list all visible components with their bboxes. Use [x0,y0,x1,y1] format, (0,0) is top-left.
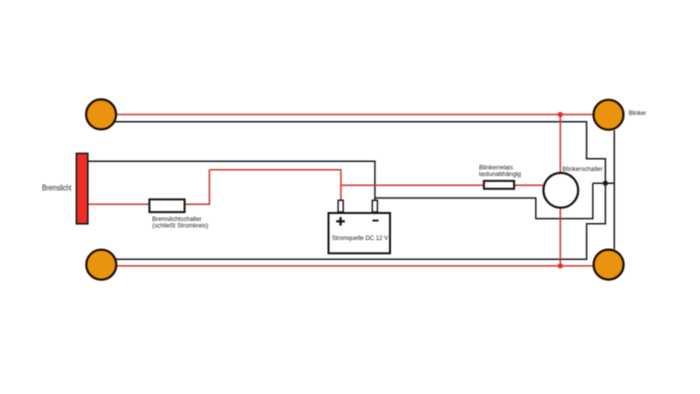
lamp bottom-right [594,250,624,280]
battery terminal plus [338,200,343,212]
node red junction dot top [558,112,563,117]
battery plus sign [336,220,345,222]
wire red bottom blinker line (horizontal y=265.9) [115,265,593,267]
svg-text:Bremslicht: Bremslicht [42,183,72,192]
wire black step horizontal y=158.7 [586,158,606,160]
wire black junction row horizontal y=183.2 [593,182,615,184]
relay box Blinkerrelais [484,181,514,189]
wire black bottom return (horizontal y=259.3) [113,258,587,260]
wire black step vertical x=586.6 lower [586,224,588,260]
wire red vertical from top line to switch circle [559,115,561,173]
wire black step horizontal y=223.8 [586,223,606,225]
lamp bottom-left [86,250,116,280]
wire red battery plus drop (vertical x=341.5) [340,170,342,200]
svg-text:Stromquelle DC 12 V: Stromquelle DC 12 V [332,235,389,242]
wire red switch to corner (horizontal y=204.2) [185,203,210,205]
battery terminal minus [372,200,377,212]
lamp top-right Blinker [594,100,624,130]
wire black vertical x=592.2 up to junction row [592,183,594,219]
svg-text:lastunabhängig: lastunabhängig [479,171,521,178]
wire black battery minus to right (horizontal) [375,197,537,199]
node red junction dot bottom [558,263,563,268]
battery box Stromquelle [329,213,391,253]
wire red corner to battery plus (horizontal y=169.8) [209,169,341,171]
wire red relay to blinker switch (horizontal y=185.5) [514,184,543,186]
lamp top-left [86,99,116,129]
wire black battery minus drop (vertical) [374,161,376,200]
wire black step vertical x=586.6 [586,122,588,160]
wire red corner up (vertical x=209.4) [208,170,210,205]
wire black main drop x=605.4 through junction [604,159,606,225]
wire red battery plus to relay (horizontal y=185.5) [341,184,484,186]
wire black from brake light top to battery minus (horizontal) [88,160,376,162]
node black junction dot [603,181,608,186]
blinker switch circle Blinkerschalter [543,173,578,208]
svg-text:(schließt Stromkreis): (schließt Stromkreis) [152,223,208,230]
battery minus sign [373,220,379,222]
wire black step down at x=535.8 (vertical) [535,198,537,219]
wire black top-left lamp to right (horizontal y=121.5) [113,121,587,123]
switch box Bremslichtschalter [149,199,184,212]
wire red vertical from switch circle to bottom line [559,209,561,266]
brake light bar (Bremslicht) [76,153,87,223]
wire black horizontal y=218.5 [536,218,594,220]
wire red brake light to switch (horizontal y=204.2) [88,203,149,205]
svg-text:Blinker: Blinker [629,110,647,117]
svg-text:Blinkerschalter: Blinkerschalter [562,166,603,173]
wire red top blinker line (horizontal y=114.5) [115,114,593,116]
wire black right lamps trunk (vertical x=614.3) [613,130,615,249]
